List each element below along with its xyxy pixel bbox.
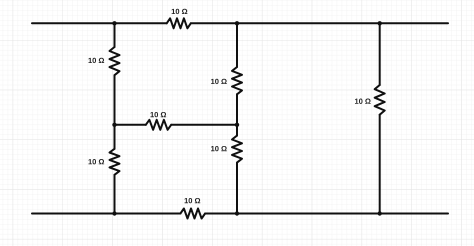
label R1 value 10 Ω [172,9,188,14]
resistor R1 10Ω (top horizontal) [167,18,191,28]
node bottom-left junction [112,211,116,215]
node top-right junction [378,21,382,25]
label R7 value 10 Ω [355,99,371,104]
wire crossbar right segment [171,124,237,126]
node bottom-right junction [378,211,382,215]
resistor R6 10Ω (middle branch lower) [232,136,242,163]
resistor R4 10Ω (middle branch upper) [232,67,242,94]
label R3 value 10 Ω [88,159,104,164]
resistor R7 10Ω (right branch) [375,85,385,115]
label R5 value 10 Ω [150,112,166,117]
resistor R8 10Ω (bottom horizontal) [180,209,205,219]
resistor R5 10Ω (crossbar horizontal) [146,120,171,130]
wire right branch lower [379,115,381,214]
label R4 value 10 Ω [211,79,227,84]
label R8 value 10 Ω [185,198,201,203]
resistor R2 10Ω (left branch upper) [110,47,120,75]
label R2 value 10 Ω [88,58,104,63]
wire left branch middle [114,75,116,149]
wire middle branch bottom [236,163,238,214]
wire middle branch upper [236,23,238,67]
wire left branch bottom [114,175,116,214]
node top-left junction [112,21,116,25]
node bottom-middle junction [235,211,239,215]
node top-middle junction [235,21,239,25]
wire top-right segment [191,22,448,24]
wire bottom-left segment [32,213,180,215]
wire crossbar left segment [115,124,146,126]
resistor R3 10Ω (left branch lower) [110,149,120,175]
wire bottom-right segment [205,213,448,215]
node crossbar-left junction [112,123,116,127]
wire middle branch middle [236,94,238,135]
wire left branch upper [114,23,116,47]
label R6 value 10 Ω [211,146,227,151]
wire right branch upper [379,23,381,85]
wire top-left segment [32,22,167,24]
node crossbar-right junction [235,123,239,127]
